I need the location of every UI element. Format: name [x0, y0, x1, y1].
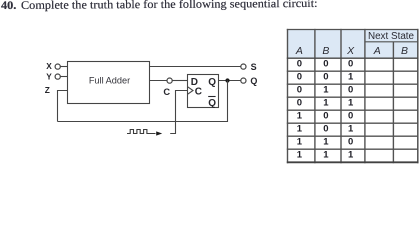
- svg-text:0: 0: [323, 58, 328, 69]
- clock arrow head: [156, 131, 162, 135]
- wire sum output S: [150, 66, 241, 68]
- svg-text:Z: Z: [45, 85, 50, 95]
- clock edge triangle: [188, 87, 194, 95]
- svg-text:1: 1: [323, 97, 329, 108]
- wire X to full adder: [60, 66, 67, 68]
- wire Y to full adder: [60, 76, 67, 78]
- svg-text:0: 0: [348, 136, 353, 147]
- junction dot on Q wire: [225, 78, 229, 82]
- svg-text:1: 1: [323, 150, 329, 161]
- svg-text:0: 0: [323, 123, 328, 134]
- svg-text:1: 1: [297, 150, 303, 161]
- svg-text:1: 1: [348, 97, 354, 108]
- svg-text:0: 0: [323, 71, 328, 82]
- svg-text:B: B: [401, 45, 408, 57]
- svg-text:1: 1: [348, 123, 354, 134]
- clock pulse waveform: [127, 130, 156, 134]
- svg-text:0: 0: [297, 71, 302, 82]
- wire Q output: [219, 80, 241, 82]
- svg-text:X: X: [346, 45, 355, 57]
- full adder U1: [68, 62, 150, 104]
- svg-text:0: 0: [297, 97, 302, 108]
- svg-text:1: 1: [348, 150, 354, 161]
- wire Z input into full adder: [58, 91, 68, 122]
- svg-text:0: 0: [348, 58, 353, 69]
- svg-text:0: 0: [297, 84, 302, 95]
- input terminal Y: [46, 72, 60, 82]
- svg-text:Q: Q: [208, 98, 216, 109]
- svg-text:C: C: [195, 87, 202, 98]
- svg-text:Next State: Next State: [368, 31, 415, 42]
- svg-text:B: B: [322, 45, 329, 57]
- svg-text:1: 1: [297, 110, 303, 121]
- input terminal X: [46, 61, 60, 71]
- svg-text:1: 1: [297, 136, 303, 147]
- wire carry output to D input: [150, 80, 168, 82]
- truth table: [287, 29, 419, 163]
- svg-text:Y: Y: [46, 72, 52, 82]
- svg-text:X: X: [46, 61, 52, 71]
- output terminal S: [241, 62, 257, 72]
- wire clock to C input: [170, 91, 187, 134]
- svg-text:0: 0: [323, 110, 328, 121]
- svg-text:0: 0: [348, 84, 353, 95]
- output terminal Q: [241, 76, 258, 86]
- svg-text:Q: Q: [208, 77, 216, 88]
- svg-text:1: 1: [297, 123, 303, 134]
- svg-text:1: 1: [323, 136, 329, 147]
- svg-text:Full Adder: Full Adder: [89, 75, 130, 85]
- D flip-flop U2: [188, 75, 219, 109]
- svg-text:1: 1: [323, 84, 329, 95]
- svg-text:A: A: [295, 45, 303, 57]
- svg-text:C: C: [163, 87, 170, 97]
- svg-text:Q: Q: [250, 76, 257, 86]
- node C (carry): [163, 78, 172, 97]
- wire feedback Q to Z: [58, 81, 228, 122]
- svg-text:A: A: [373, 45, 381, 57]
- svg-text:1: 1: [348, 71, 354, 82]
- svg-text:S: S: [251, 62, 257, 72]
- svg-text:0: 0: [297, 58, 302, 69]
- svg-text:0: 0: [348, 110, 353, 121]
